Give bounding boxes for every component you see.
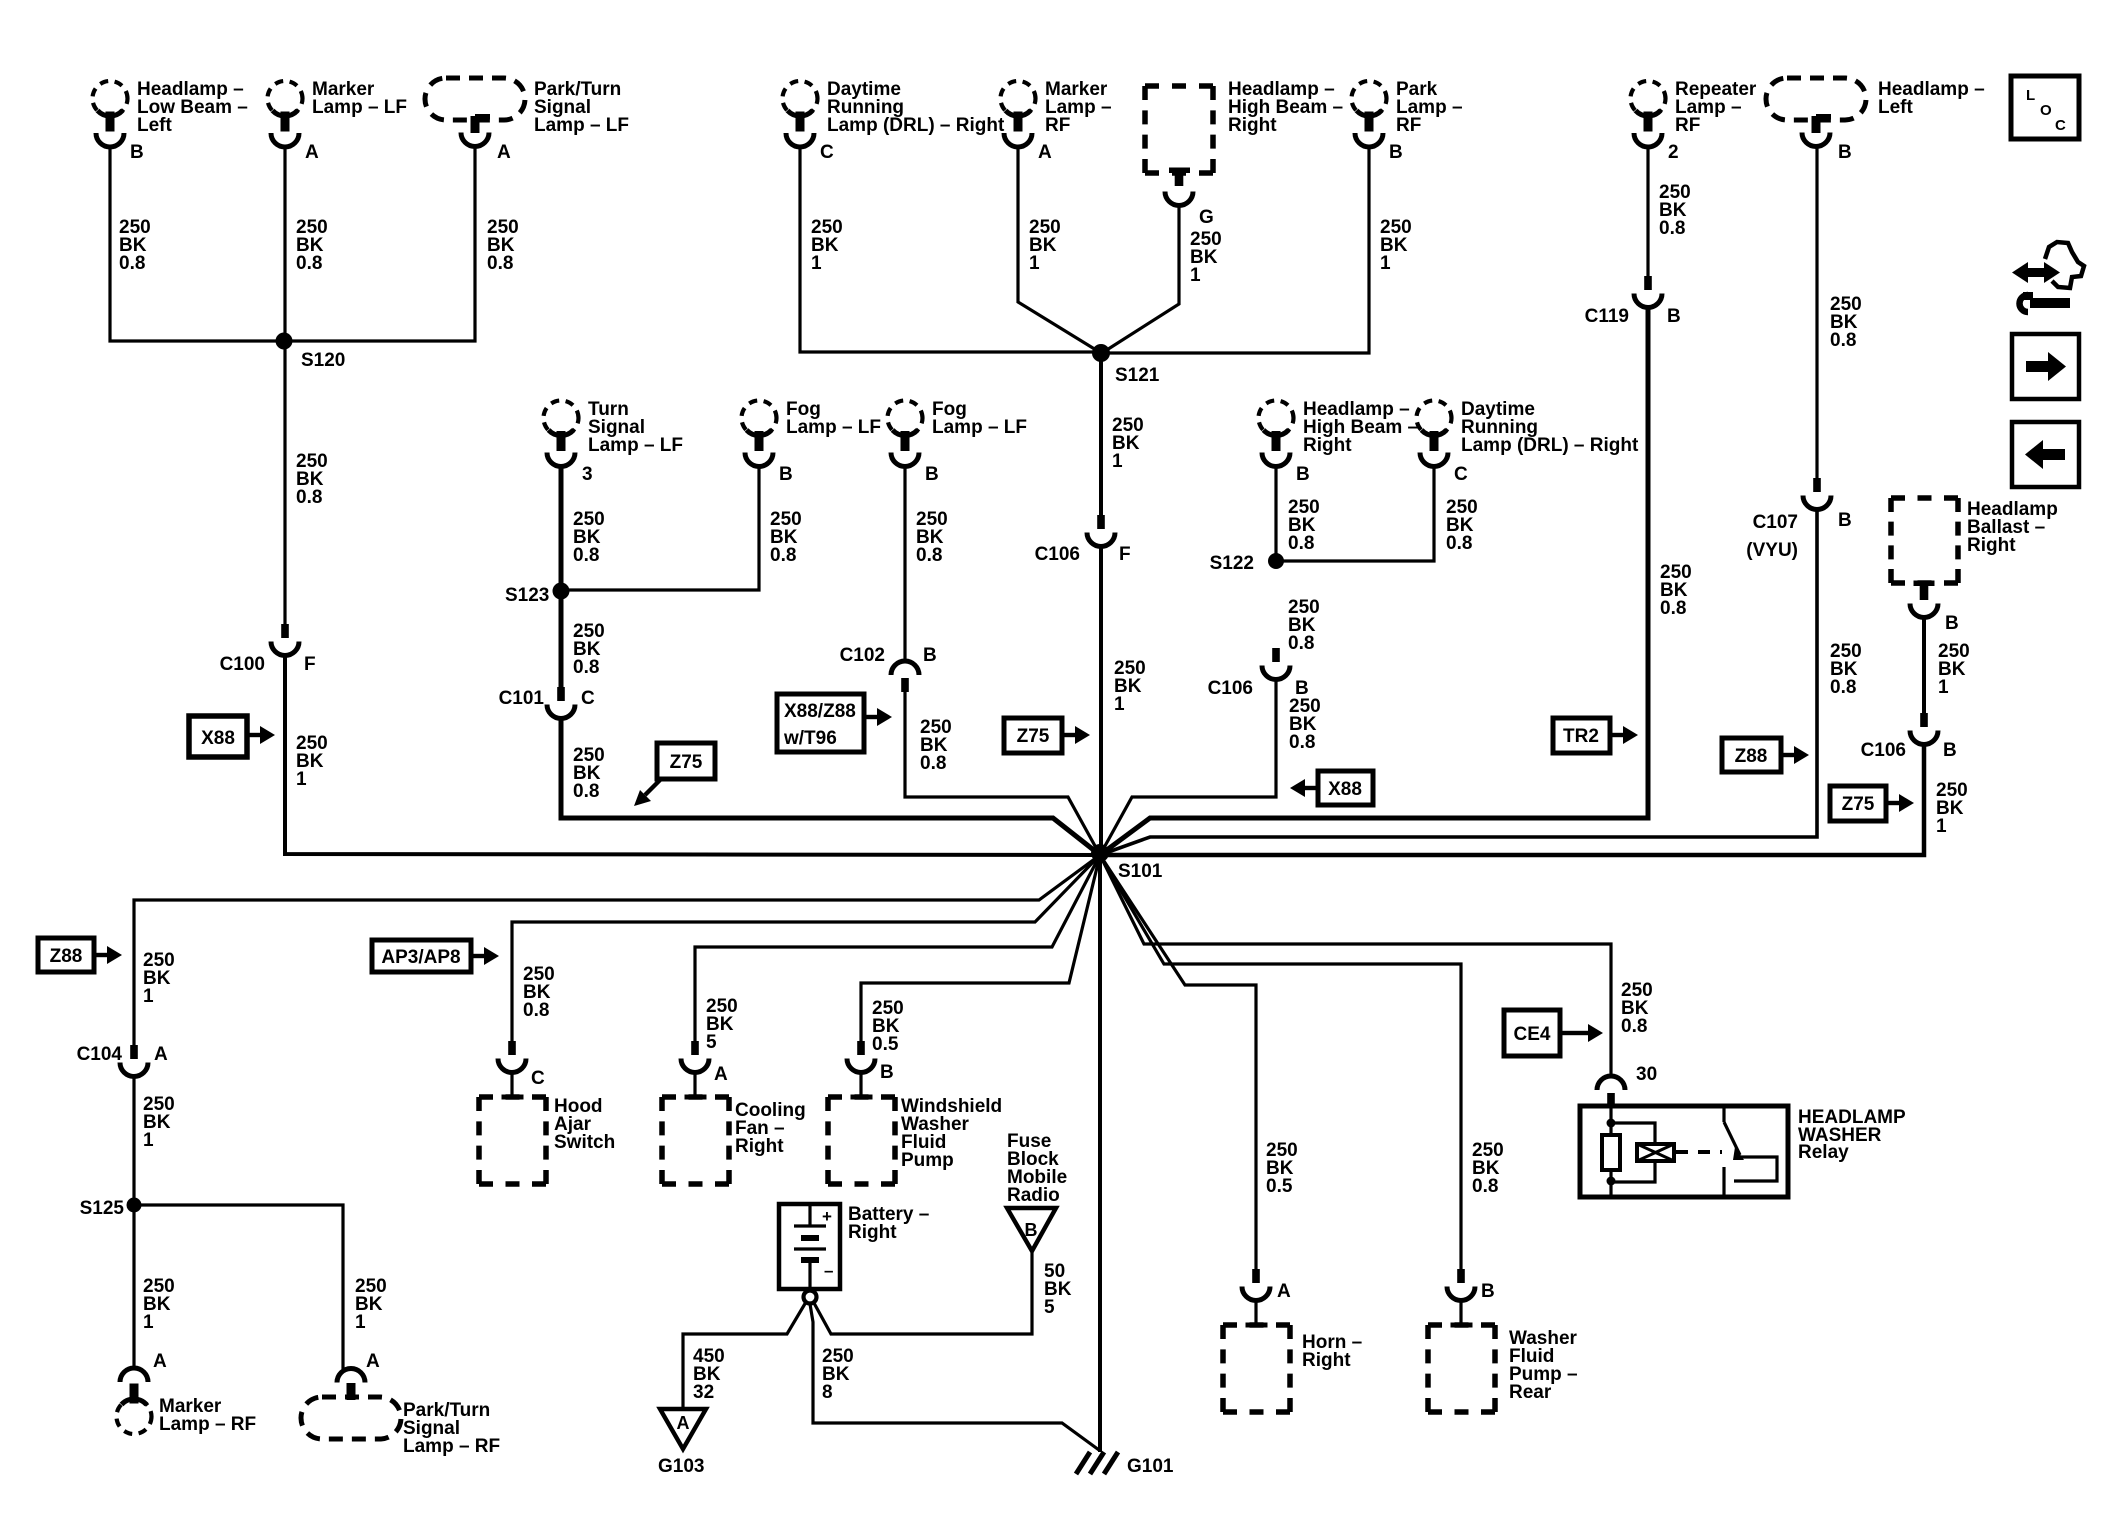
svg-text:0.8: 0.8	[119, 253, 145, 274]
connector A (cooling fan)	[681, 1041, 709, 1073]
battery internals	[808, 1204, 811, 1226]
svg-text:30: 30	[1636, 1064, 1657, 1085]
junction S121	[1092, 344, 1110, 362]
svg-text:0.8: 0.8	[1288, 633, 1314, 654]
box with right arrow icon	[2012, 334, 2079, 399]
svg-text:C106: C106	[1208, 678, 1253, 699]
relay switch	[1722, 1106, 1725, 1122]
junction S120	[276, 333, 293, 350]
wire S101 down to G101	[1098, 855, 1102, 1452]
wire to S122	[1274, 465, 1277, 561]
wire C119 down to S101 (thick)	[1100, 305, 1648, 855]
connector C106 (ballast)	[1910, 713, 1938, 745]
svg-text:0.8: 0.8	[1830, 677, 1856, 698]
wire S125 to park/turn RF	[134, 1205, 343, 1369]
box Z75 (far right)	[1830, 786, 1886, 821]
svg-text:X88: X88	[201, 728, 235, 749]
svg-text:RF: RF	[1675, 115, 1700, 136]
svg-text:C106: C106	[1861, 740, 1906, 761]
svg-text:1: 1	[355, 1312, 366, 1333]
junction S101	[1091, 844, 1109, 862]
svg-text:5: 5	[706, 1032, 717, 1053]
component Cooling Fan - Right	[662, 1095, 729, 1185]
wire ballast to C106	[1922, 616, 1926, 713]
svg-text:0.8: 0.8	[920, 753, 946, 774]
svg-text:A: A	[153, 1351, 167, 1372]
lamp Marker Lamp - RF	[1001, 81, 1036, 147]
svg-text:B: B	[779, 464, 793, 485]
svg-text:1: 1	[1936, 816, 1947, 837]
svg-text:O: O	[2040, 102, 2052, 119]
connector B (washer pump)	[847, 1041, 875, 1073]
box X88/Z88 w/T96	[777, 694, 864, 752]
svg-text:X88/Z88: X88/Z88	[784, 701, 856, 722]
svg-text:Lamp – LF: Lamp – LF	[312, 97, 407, 118]
svg-text:S121: S121	[1115, 365, 1160, 386]
wire park lamp RF to S121	[1104, 146, 1369, 353]
svg-text:1: 1	[296, 769, 307, 790]
component Headlamp Ballast - Right (dashed box)	[1891, 498, 1958, 583]
svg-text:S120: S120	[301, 350, 345, 371]
svg-text:1: 1	[1938, 677, 1949, 698]
svg-text:w/T96: w/T96	[783, 728, 837, 749]
svg-text:F: F	[304, 654, 316, 675]
svg-text:C101: C101	[499, 688, 545, 709]
svg-text:Lamp (DRL) – Right: Lamp (DRL) – Right	[1461, 435, 1639, 456]
svg-text:A: A	[154, 1044, 168, 1065]
svg-text:1: 1	[1112, 451, 1123, 472]
svg-text:0.8: 0.8	[1289, 732, 1315, 753]
pin stem + connector G	[1169, 168, 1190, 174]
svg-text:Lamp – LF: Lamp – LF	[588, 435, 683, 456]
wire S101 to relay pin 30	[1100, 855, 1611, 1076]
wire fog1 to S123	[563, 465, 759, 590]
svg-text:Lamp – RF: Lamp – RF	[159, 1414, 256, 1435]
svg-text:0.8: 0.8	[1660, 598, 1686, 619]
box Z88 (right)	[1722, 738, 1781, 772]
svg-text:B: B	[925, 464, 939, 485]
wire to hood ajar box	[510, 1070, 513, 1097]
wire lamp3 to S120	[286, 146, 475, 341]
svg-text:C100: C100	[220, 654, 265, 675]
wire C106B to S101	[1100, 677, 1276, 855]
connector C106 (fog branch)	[1262, 648, 1290, 680]
svg-text:B: B	[1838, 142, 1852, 163]
svg-text:Right: Right	[1967, 535, 2016, 556]
svg-text:5: 5	[1044, 1297, 1055, 1318]
svg-text:B: B	[1667, 306, 1681, 327]
component Headlamp - High Beam - Right (dashed box)	[1145, 86, 1213, 173]
wire S101 to hood ajar switch	[512, 855, 1100, 1041]
svg-text:B: B	[1025, 1220, 1038, 1240]
svg-text:C106: C106	[1035, 544, 1080, 565]
svg-text:0.8: 0.8	[296, 253, 322, 274]
wire to washer pump box	[859, 1070, 862, 1097]
battery node circle	[804, 1291, 817, 1304]
lamp Daytime Running Lamp (DRL) - Right	[783, 81, 818, 147]
svg-text:C107: C107	[1753, 512, 1798, 533]
connector 30 (relay)	[1597, 1076, 1625, 1107]
svg-text:Rear: Rear	[1509, 1382, 1552, 1403]
component Battery - Right	[779, 1204, 840, 1289]
fuse block triangle B	[1007, 1208, 1056, 1251]
svg-text:A: A	[714, 1064, 728, 1085]
lamp Turn Signal Lamp - LF	[544, 401, 579, 467]
lamp Marker Lamp - RF (mirrored)	[117, 1368, 152, 1434]
svg-text:G103: G103	[658, 1456, 704, 1477]
svg-text:L: L	[2026, 87, 2035, 104]
wire battery node to G103	[683, 1302, 806, 1409]
svg-text:Lamp – LF: Lamp – LF	[932, 417, 1027, 438]
svg-text:S122: S122	[1210, 553, 1254, 574]
svg-text:Lamp (DRL) – Right: Lamp (DRL) – Right	[827, 115, 1005, 136]
box CE4	[1504, 1010, 1560, 1056]
svg-text:C: C	[581, 688, 595, 709]
wire lamp2 down through S120 to C100	[283, 146, 286, 624]
wire S125 to marker lamp RF	[132, 1205, 135, 1369]
svg-text:Left: Left	[137, 115, 173, 136]
relay coil branch	[1609, 1106, 1612, 1135]
svg-text:8: 8	[822, 1382, 833, 1403]
lamp Park/Turn Signal Lamp - RF (mirrored oval)	[301, 1369, 401, 1439]
svg-text:B: B	[1296, 464, 1310, 485]
component Hood Ajar Switch	[479, 1095, 546, 1185]
svg-text:Radio: Radio	[1007, 1185, 1060, 1206]
svg-text:TR2: TR2	[1563, 726, 1599, 747]
wire C101 to S101 (thick)	[561, 716, 1100, 855]
svg-text:B: B	[880, 1062, 894, 1083]
wire battery node down to G101	[810, 1304, 1099, 1450]
box X88 (left)	[189, 716, 247, 757]
lamp Daytime Running Lamp (DRL) - Right (row2)	[1417, 401, 1452, 467]
svg-text:1: 1	[1190, 265, 1201, 286]
svg-text:Right: Right	[735, 1136, 784, 1157]
svg-text:0.8: 0.8	[916, 545, 942, 566]
svg-text:Right: Right	[848, 1222, 897, 1243]
svg-text:CE4: CE4	[1514, 1024, 1551, 1045]
svg-text:B: B	[1389, 142, 1403, 163]
wire S101 to C104 column	[134, 855, 1100, 1045]
svg-text:F: F	[1119, 544, 1131, 565]
wire C107 down to S101	[1100, 507, 1817, 855]
svg-text:S125: S125	[80, 1198, 125, 1219]
svg-text:Right: Right	[1228, 115, 1277, 136]
svg-text:C: C	[1454, 464, 1468, 485]
svg-text:1: 1	[143, 1130, 154, 1151]
LOC box	[2011, 76, 2079, 139]
wire fog2 to C102	[903, 465, 906, 661]
connector C102	[891, 661, 919, 692]
svg-text:1: 1	[143, 986, 154, 1007]
lamp Fog Lamp - LF (2)	[888, 401, 923, 467]
svg-text:A: A	[1277, 1281, 1291, 1302]
wire S121 down to C106 F	[1099, 353, 1103, 515]
svg-text:0.8: 0.8	[1472, 1176, 1498, 1197]
connector A (horn)	[1242, 1269, 1270, 1301]
svg-text:1: 1	[1114, 694, 1125, 715]
relay dashed actuator link	[1676, 1150, 1722, 1154]
svg-text:0.8: 0.8	[1621, 1016, 1647, 1037]
svg-text:C: C	[820, 142, 834, 163]
svg-text:S123: S123	[505, 585, 549, 606]
wire C106 ballast to S101	[1100, 742, 1924, 855]
connector C100	[271, 624, 299, 656]
svg-text:0.8: 0.8	[487, 253, 513, 274]
svg-text:1: 1	[1380, 253, 1391, 274]
svg-text:1: 1	[1029, 253, 1040, 274]
svg-text:Pump: Pump	[901, 1150, 954, 1171]
svg-text:0.8: 0.8	[1446, 533, 1472, 554]
ground G101	[1076, 1452, 1090, 1474]
box TR2	[1553, 718, 1610, 753]
wire DRL right to S121	[800, 146, 1098, 352]
svg-text:S101: S101	[1118, 861, 1163, 882]
lamp Fog Lamp - LF (1)	[742, 401, 777, 467]
svg-text:0.8: 0.8	[296, 487, 322, 508]
connector C107 (VYU)	[1803, 478, 1831, 510]
wire high beam right to S121	[1102, 204, 1179, 353]
svg-text:Right: Right	[1302, 1350, 1351, 1371]
svg-text:A: A	[497, 142, 511, 163]
svg-text:X88: X88	[1328, 779, 1362, 800]
svg-text:Left: Left	[1878, 97, 1914, 118]
connector C106 F	[1087, 515, 1115, 547]
wire S101 to horn	[1100, 855, 1256, 1269]
svg-text:RF: RF	[1045, 115, 1070, 136]
svg-text:1: 1	[143, 1312, 154, 1333]
connector C101	[547, 687, 575, 719]
svg-text:Switch: Switch	[554, 1132, 615, 1153]
wire fuse block to battery node	[814, 1251, 1032, 1334]
svg-text:0.8: 0.8	[573, 781, 599, 802]
svg-text:B: B	[1838, 510, 1852, 531]
svg-text:RF: RF	[1396, 115, 1421, 136]
svg-text:Right: Right	[1303, 435, 1352, 456]
svg-text:0.5: 0.5	[1266, 1176, 1293, 1197]
wire marker RF to S121	[1018, 146, 1101, 353]
junction S122	[1268, 553, 1284, 569]
svg-text:A: A	[305, 142, 319, 163]
component Windshield Washer Fluid Pump	[828, 1095, 895, 1185]
lamp Marker Lamp - LF	[268, 81, 303, 147]
svg-text:B: B	[1945, 613, 1959, 634]
wire lamp1 to S120	[110, 146, 282, 341]
svg-text:B: B	[1481, 1281, 1495, 1302]
svg-text:B: B	[923, 645, 937, 666]
box Z88 (bottom left)	[38, 938, 94, 972]
svg-text:B: B	[130, 142, 144, 163]
wire headlamp left to C107	[1815, 146, 1818, 478]
lamp Repeater Lamp - RF	[1631, 81, 1666, 147]
lamp Park/Turn Signal Lamp - LF (oval)	[425, 78, 525, 147]
svg-text:0.8: 0.8	[1288, 533, 1314, 554]
svg-text:1: 1	[811, 253, 822, 274]
junction S125	[127, 1198, 142, 1213]
svg-text:C104: C104	[77, 1044, 123, 1065]
svg-text:C: C	[531, 1068, 545, 1089]
svg-text:Lamp – RF: Lamp – RF	[403, 1436, 500, 1457]
wire to cooling fan box	[693, 1070, 696, 1097]
connector C104	[120, 1045, 148, 1077]
lamp Headlamp - High Beam - Right (row2)	[1259, 401, 1294, 467]
svg-text:B: B	[1943, 740, 1957, 761]
svg-text:–: –	[824, 1261, 833, 1280]
svg-text:32: 32	[693, 1382, 714, 1403]
svg-text:Lamp – LF: Lamp – LF	[786, 417, 881, 438]
svg-text:Z88: Z88	[50, 946, 83, 967]
svg-text:AP3/AP8: AP3/AP8	[381, 947, 460, 968]
svg-text:(VYU): (VYU)	[1746, 540, 1798, 561]
wire S101 to cooling fan	[695, 855, 1100, 1041]
wire DRL2 to S122	[1278, 465, 1434, 561]
svg-text:2: 2	[1668, 142, 1679, 163]
wire repeater to C119	[1646, 146, 1649, 276]
svg-text:A: A	[677, 1413, 690, 1433]
svg-text:0.8: 0.8	[1659, 218, 1685, 239]
relay HEADLAMP WASHER Relay	[1580, 1106, 1788, 1197]
svg-text:0.5: 0.5	[872, 1034, 899, 1055]
lamp Headlamp - Left (oval)	[1766, 78, 1866, 147]
wire turn signal to S123 (thick)	[559, 465, 564, 687]
svg-text:C102: C102	[840, 645, 885, 666]
box X88 (right, arrow left)	[1318, 771, 1373, 805]
svg-text:Z75: Z75	[1842, 794, 1875, 815]
svg-text:G101: G101	[1127, 1456, 1174, 1477]
svg-text:Z75: Z75	[1017, 726, 1050, 747]
svg-text:3: 3	[582, 464, 593, 485]
wire C102 to S101	[905, 691, 1100, 855]
box with left arrow icon	[2012, 422, 2079, 487]
component Horn - Right	[1223, 1323, 1290, 1413]
wire C100 to S101	[285, 653, 1100, 855]
svg-text:0.8: 0.8	[573, 545, 599, 566]
wire S101 to washer fluid pump rear	[1100, 855, 1461, 1269]
wire S101 to windshield washer pump	[861, 855, 1100, 1041]
svg-text:Z75: Z75	[670, 752, 703, 773]
lamp Headlamp - Low Beam - Left	[93, 81, 128, 147]
svg-text:0.8: 0.8	[523, 1000, 549, 1021]
ballast stem + connector pin B	[1914, 581, 1935, 587]
svg-text:0.8: 0.8	[1830, 330, 1856, 351]
connector B (washer rear)	[1447, 1269, 1475, 1301]
svg-text:C119: C119	[1585, 306, 1629, 327]
svg-text:Lamp – LF: Lamp – LF	[534, 115, 629, 136]
lamp Park Lamp - RF	[1352, 81, 1387, 147]
icon double-arrow with outline and wrench	[2012, 242, 2084, 312]
relay solenoid branch	[1611, 1123, 1655, 1144]
svg-text:G: G	[1199, 207, 1214, 228]
connector C (hood ajar)	[498, 1041, 526, 1073]
svg-text:Z88: Z88	[1735, 746, 1768, 767]
svg-text:0.8: 0.8	[573, 657, 599, 678]
box Z75 (mid)	[1004, 718, 1062, 753]
svg-text:A: A	[366, 1351, 380, 1372]
ground G103 triangle	[660, 1409, 706, 1449]
box Z75 (left) with diagonal arrow	[657, 743, 715, 779]
wire C104 to S125	[132, 1074, 135, 1205]
svg-text:C: C	[2055, 117, 2066, 134]
wire C106F down to S101	[1099, 544, 1103, 855]
component Washer Fluid Pump - Rear	[1428, 1323, 1495, 1413]
svg-text:A: A	[1038, 142, 1052, 163]
svg-text:Relay: Relay	[1798, 1142, 1849, 1163]
arrow from Z75 down-left	[645, 779, 661, 795]
connector C119	[1634, 276, 1662, 308]
junction S123	[553, 583, 570, 600]
svg-text:0.8: 0.8	[770, 545, 796, 566]
box AP3/AP8	[372, 940, 471, 972]
svg-text:+: +	[822, 1207, 832, 1226]
